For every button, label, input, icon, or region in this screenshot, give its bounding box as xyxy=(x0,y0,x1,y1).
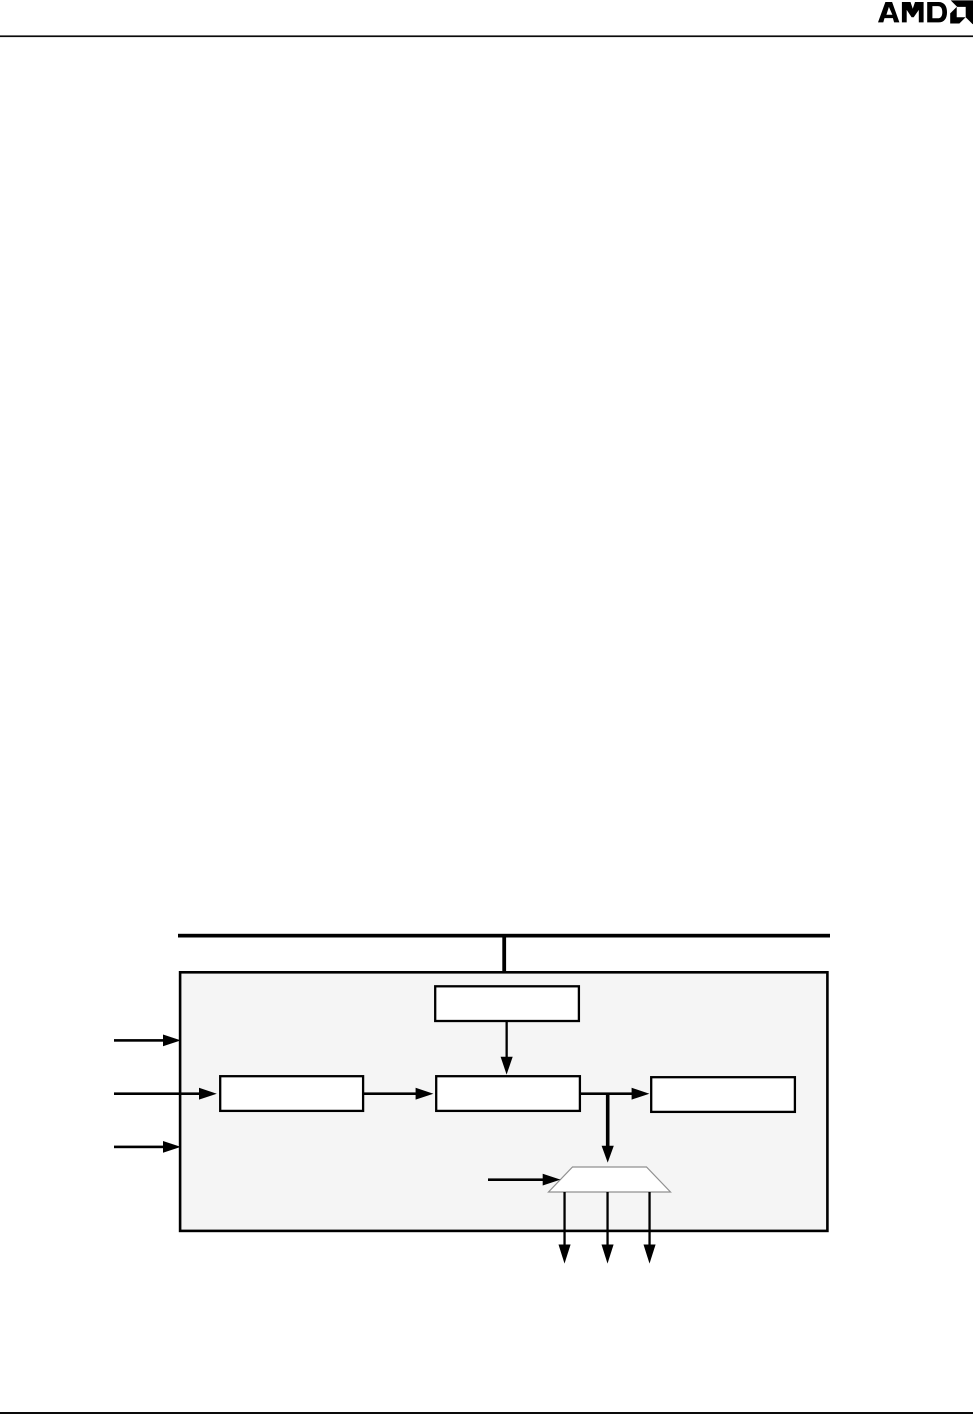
output wire 3 from mux xyxy=(648,1192,650,1245)
mux trapezoid xyxy=(549,1167,671,1192)
AMD arrow symbol xyxy=(950,0,973,24)
left white box xyxy=(220,1076,363,1111)
right white box xyxy=(651,1077,795,1112)
output arrow head 2 xyxy=(602,1245,614,1264)
header rule xyxy=(0,35,973,37)
output arrow head 1 xyxy=(559,1245,571,1264)
output wire 2 from mux xyxy=(606,1192,608,1245)
top white box xyxy=(435,986,579,1021)
bus drop wire to block xyxy=(502,938,506,975)
wire: middle box to right box with junction xyxy=(580,1092,633,1095)
input arrow 1 (top left) xyxy=(114,1039,164,1042)
main block (gray container) xyxy=(180,972,827,1231)
output arrow head 3 xyxy=(644,1245,656,1264)
arrow: select input into mux xyxy=(488,1178,543,1181)
bus bar (thick horizontal line) xyxy=(178,934,830,938)
arrow: left box to middle box xyxy=(363,1092,417,1095)
AMD logotype text (custom heavy letters) xyxy=(878,2,947,22)
junction drop arrow to mux xyxy=(606,1093,610,1147)
input arrow 2 (middle left) xyxy=(114,1092,200,1095)
footer rule xyxy=(0,1412,973,1414)
middle white box xyxy=(436,1076,580,1111)
output wire 1 from mux xyxy=(563,1192,565,1245)
arrow: top box to middle box xyxy=(506,1022,508,1058)
input arrow 3 (bottom left) xyxy=(114,1146,164,1149)
arrow head into right box xyxy=(632,1088,650,1100)
